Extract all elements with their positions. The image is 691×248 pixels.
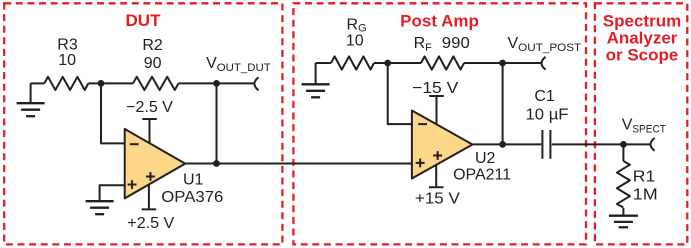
ground (U1 non-inverting input) [86,185,125,214]
resistor R1 [617,161,630,208]
svg-text:+15 V: +15 V [415,191,460,208]
svg-text:DUT: DUT [126,11,162,30]
resistor R3 [44,77,88,90]
node (R3/R2 junction) [98,80,105,87]
U2 inverting input marker [418,123,427,125]
wire (feedback to U1 inverting input) [101,83,125,143]
resistor RG [331,56,374,69]
Spectrum Analyzer block dashed border [595,3,687,244]
terminal VSPECT [651,138,655,151]
U1 negative supply pin [142,119,157,143]
svg-text:C1: C1 [534,88,555,105]
node VOUT_POST [499,60,506,67]
U1 non-inverting input marker [128,180,137,189]
U2 non-inverting input marker [416,159,425,168]
wire (U1 output to U2 + input) [185,163,412,165]
wire (R1 to ground) [622,208,624,216]
wire (RG to node) [374,62,421,64]
U1 positive supply pin [142,184,157,209]
U1 inverting input marker [130,143,139,145]
wire (U2 output to C1) [473,143,542,145]
U1 positive supply marker [146,172,155,181]
DUT block dashed border [4,3,282,244]
wire (R3 to node) [88,82,133,84]
op-amp U2 [412,111,473,179]
U2 positive supply pin [429,166,444,188]
terminal VOUT_DUT [254,77,258,90]
resistor R2 [133,77,179,90]
node VSPECT [620,141,627,148]
svg-text:−15 V: −15 V [412,80,458,97]
svg-text:R2: R2 [142,37,163,54]
svg-text:Post Amp: Post Amp [400,11,479,30]
op-amp U1 [125,129,186,199]
resistor RF [421,56,464,69]
wire (R2 to VOUT_DUT node) [179,82,255,84]
wire (feedback to U2 inverting input) [388,63,412,124]
svg-text:U2: U2 [475,150,496,167]
Post Amp block dashed border [293,3,586,244]
U2 positive supply marker [433,151,442,160]
node VOUT_DUT [213,80,220,87]
svg-text:10: 10 [346,33,364,50]
svg-text:10: 10 [58,52,76,69]
wire (ground to RG) [316,62,331,64]
svg-text:10 µF: 10 µF [526,107,569,124]
svg-text:R3: R3 [57,36,78,53]
wire (ground to R3) [31,82,45,84]
wire (VOUT_POST node down to U2 output) [502,63,504,144]
svg-text:U1: U1 [183,172,204,189]
wire (VOUT_DUT node down to output wire) [216,83,218,163]
ground (left of RG) [302,63,330,97]
node (RG/RF junction) [384,60,391,67]
terminal VOUT_POST [542,57,546,70]
svg-text:+2.5 V: +2.5 V [127,215,174,232]
node (U1 output) [213,160,220,167]
node (U2 output) [499,141,506,148]
svg-text:OPA211: OPA211 [453,167,511,184]
U2 negative supply pin [429,96,444,125]
capacitor C1 [542,130,550,159]
wire (RF to VOUT_POST node) [464,62,542,64]
svg-text:R1: R1 [633,168,656,185]
svg-text:OPA376: OPA376 [161,189,223,206]
svg-text:990: 990 [442,35,470,52]
svg-text:or Scope: or Scope [606,45,679,64]
wire (VSPECT node to R1) [622,144,624,161]
svg-text:90: 90 [144,55,162,72]
ground (below R1) [609,216,638,228]
svg-text:1M: 1M [633,187,658,204]
svg-text:−2.5 V: −2.5 V [126,99,173,116]
wire (C1 to VSPECT node) [552,143,650,145]
ground (left of R3) [17,83,45,116]
